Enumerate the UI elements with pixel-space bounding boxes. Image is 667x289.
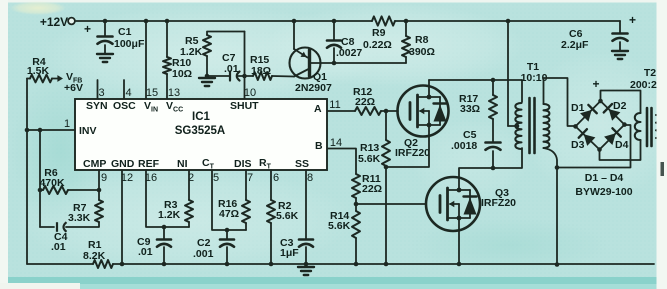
junction bridge bottom xyxy=(597,147,602,152)
svg-text:A: A xyxy=(314,103,322,115)
pin number 2 xyxy=(188,172,194,184)
label +12V xyxy=(40,15,68,29)
junction pin15-rail xyxy=(144,19,149,24)
svg-text:SG3525A: SG3525A xyxy=(175,125,226,137)
svg-text:10Ω: 10Ω xyxy=(172,68,192,80)
label C7 xyxy=(222,52,239,75)
pin number 11 xyxy=(329,99,340,111)
resistor R10 xyxy=(163,21,171,99)
svg-text:470K: 470K xyxy=(39,177,65,189)
capacitor C6 xyxy=(613,21,628,50)
label R9 xyxy=(363,27,392,51)
label R1 xyxy=(83,239,106,262)
label R15 xyxy=(250,54,271,77)
svg-text:5: 5 xyxy=(213,172,219,184)
resistor R16 xyxy=(242,170,250,230)
svg-text:5.6K: 5.6K xyxy=(328,220,351,232)
capacitor C1 xyxy=(98,21,113,53)
pin number 1 xyxy=(64,118,70,130)
ground (R5) xyxy=(199,78,215,86)
svg-text:8: 8 xyxy=(307,172,313,184)
resistor R4 xyxy=(27,75,63,83)
svg-text:BYW29-100: BYW29-100 xyxy=(575,186,632,198)
label CMP xyxy=(83,158,106,170)
junction R8-rail xyxy=(404,19,409,24)
junction C8-base xyxy=(332,61,337,66)
svg-text:14: 14 xyxy=(330,137,342,149)
svg-text:4: 4 xyxy=(125,87,131,99)
capacitor C2 xyxy=(220,230,234,264)
label RT xyxy=(259,157,272,171)
capacitor C7 xyxy=(207,72,253,81)
wire Q2 source xyxy=(386,137,429,168)
label A xyxy=(314,103,322,115)
pin number 16 xyxy=(145,172,157,184)
capacitor C3 xyxy=(299,170,313,264)
label R8 xyxy=(409,34,435,58)
junction bridge right xyxy=(622,122,627,127)
label GND xyxy=(111,158,135,170)
svg-text:IRFZ20: IRFZ20 xyxy=(395,147,430,159)
junction bridge top xyxy=(598,99,603,104)
label R12 xyxy=(353,86,375,108)
label R5 xyxy=(180,35,203,58)
svg-text:22Ω: 22Ω xyxy=(355,96,375,108)
label D1-D4 xyxy=(585,172,624,184)
svg-text:18Ω: 18Ω xyxy=(251,65,271,77)
IC U1 SG3525A body xyxy=(75,99,327,170)
label Q2 xyxy=(395,137,430,159)
svg-text:+: + xyxy=(592,77,599,91)
label OSC xyxy=(113,100,136,112)
junction pin12-rail xyxy=(120,262,125,267)
wire Q2 drain xyxy=(429,80,522,102)
junction R6-left xyxy=(38,188,43,193)
svg-text:1μF: 1μF xyxy=(280,247,299,259)
transistor Q2 xyxy=(398,86,449,137)
label D1 xyxy=(571,102,585,114)
junction tap-rail xyxy=(506,19,511,24)
svg-text:SHUT: SHUT xyxy=(230,100,259,112)
junction C2-top xyxy=(225,228,230,233)
svg-text:1: 1 xyxy=(64,118,70,130)
svg-text:15: 15 xyxy=(146,87,158,99)
svg-text:5.6K: 5.6K xyxy=(358,153,381,165)
pin number 13 xyxy=(168,87,180,99)
pin 4 stub xyxy=(123,80,125,99)
transistor Q3 xyxy=(426,177,480,231)
svg-text:R8: R8 xyxy=(415,34,429,46)
capacitor C4 xyxy=(40,222,67,232)
wire Q3 drain / T1 primary bottom xyxy=(459,148,522,178)
resistor R1 (in bottom line) xyxy=(93,260,113,268)
svg-text:IRFZ20: IRFZ20 xyxy=(481,197,516,209)
label C6 xyxy=(561,13,636,51)
svg-text:3.3K: 3.3K xyxy=(68,212,91,224)
svg-text:.01: .01 xyxy=(51,241,66,253)
label Q3 xyxy=(481,187,516,209)
label BYW29-100 xyxy=(575,186,632,198)
svg-text:B: B xyxy=(315,140,323,152)
resistor R9 xyxy=(372,16,395,25)
junction R5-gnd xyxy=(205,74,210,79)
capacitor C5 xyxy=(486,143,501,169)
resistor R14 xyxy=(352,211,360,264)
ground rail (bottom) xyxy=(27,263,654,265)
svg-text:CMP: CMP xyxy=(83,158,106,170)
resistor R3 xyxy=(185,170,193,227)
label R14 xyxy=(328,210,351,232)
label T1 xyxy=(521,61,548,84)
label R13 xyxy=(358,142,381,165)
pin number 15 xyxy=(146,87,158,99)
junction R6-CMP xyxy=(97,188,102,193)
junction Q3 source-rail xyxy=(457,262,462,267)
svg-text:11: 11 xyxy=(329,99,340,111)
node gate Q2 xyxy=(384,109,389,114)
svg-text:D1: D1 xyxy=(571,102,585,114)
svg-text:47Ω: 47Ω xyxy=(219,208,239,220)
junction R13-source xyxy=(384,165,389,170)
label R16 xyxy=(218,198,239,220)
label R7 xyxy=(68,202,91,224)
label CT xyxy=(202,157,215,171)
label C2 xyxy=(193,237,214,260)
label R3 xyxy=(158,199,181,221)
resistor R15 xyxy=(253,72,294,80)
label + (bridge output) xyxy=(592,77,599,91)
wire INV node xyxy=(27,79,75,131)
pin number 7 xyxy=(247,172,253,184)
diode D1 xyxy=(580,105,597,122)
svg-text:D3: D3 xyxy=(571,139,585,151)
wire REF pin16 xyxy=(146,170,189,227)
svg-text:D1 – D4: D1 – D4 xyxy=(585,172,624,184)
svg-text:1.2K: 1.2K xyxy=(158,209,181,221)
svg-text:200:2: 200:2 xyxy=(630,79,657,91)
power rail +12V (top) xyxy=(76,20,620,22)
junction C1-rail xyxy=(103,19,108,24)
wire INV to divider xyxy=(26,130,28,264)
label SS xyxy=(295,158,309,170)
wire T1 secondary top to bridge xyxy=(544,78,575,126)
junction R14-ground rail xyxy=(354,262,359,267)
junction R10-rail xyxy=(165,19,170,24)
junction C3-rail xyxy=(304,262,309,267)
transformer T1 core xyxy=(530,98,535,153)
terminal +12V xyxy=(68,18,75,25)
ground (C1) xyxy=(97,54,113,62)
label SYN xyxy=(86,100,108,112)
resistor R5 xyxy=(203,32,245,77)
capacitor C9 xyxy=(157,227,171,264)
resistor R6 xyxy=(40,186,99,194)
svg-text:R9: R9 xyxy=(372,27,386,39)
label R6 xyxy=(39,167,65,189)
junction C9-top xyxy=(162,225,167,230)
svg-text:+6V: +6V xyxy=(64,82,83,94)
svg-text:IC1: IC1 xyxy=(192,111,211,123)
wire ground to bridge right vertex xyxy=(557,125,631,168)
label D4 xyxy=(615,139,629,151)
label VCC xyxy=(166,100,183,114)
pin number 3 xyxy=(98,87,104,99)
junction Q1 emitter-rail xyxy=(292,19,297,24)
pin number 4 xyxy=(125,87,131,99)
transformer T2 secondary xyxy=(656,115,661,138)
diode D2 xyxy=(604,104,621,121)
svg-text:.001: .001 xyxy=(193,248,214,260)
wire bridge + to T2 primary xyxy=(601,91,641,114)
svg-text:10: 10 xyxy=(244,87,256,99)
transistor Q1 xyxy=(290,21,407,79)
pin 3 stub xyxy=(97,80,99,99)
svg-text:0.22Ω: 0.22Ω xyxy=(363,39,392,51)
label DIS xyxy=(234,158,252,170)
svg-text:9: 9 xyxy=(101,172,107,184)
junction bridge left xyxy=(573,124,578,129)
svg-text:3: 3 xyxy=(98,87,104,99)
label C8 xyxy=(336,36,362,59)
resistor R11 xyxy=(352,174,360,211)
label R2 xyxy=(276,200,299,222)
pin number 9 xyxy=(101,172,107,184)
label Q1 xyxy=(295,71,332,94)
svg-text:.01: .01 xyxy=(224,63,239,75)
svg-text:390Ω: 390Ω xyxy=(409,46,435,58)
wire CMP pin9 xyxy=(98,170,100,200)
ground (main rail) xyxy=(298,267,314,275)
page edge shading xyxy=(0,277,667,285)
svg-text:1.2K: 1.2K xyxy=(180,46,203,58)
junction C2-rail xyxy=(225,262,230,267)
svg-text:+: + xyxy=(629,13,636,27)
svg-text:D4: D4 xyxy=(615,139,629,151)
wire bridge - to T2 primary bottom xyxy=(600,140,641,160)
svg-text:5.6K: 5.6K xyxy=(276,210,299,222)
wire output A pin11 xyxy=(327,110,355,112)
resistor R8 xyxy=(402,21,410,63)
diode D3 xyxy=(579,129,596,146)
capacitor C8 xyxy=(327,21,341,63)
transformer T2 primary xyxy=(635,113,641,140)
resistor R17 xyxy=(489,80,497,142)
wire T1 secondary bottom to ground xyxy=(544,148,558,264)
svg-text:1.5K: 1.5K xyxy=(27,65,50,77)
junction T1 center tap xyxy=(515,124,520,129)
label NI xyxy=(177,158,188,170)
label R17 xyxy=(459,93,480,115)
svg-text:SYN: SYN xyxy=(86,100,108,112)
node gate Q3 xyxy=(354,202,359,207)
label D3 xyxy=(571,139,585,151)
svg-text:OSC: OSC xyxy=(113,100,136,112)
svg-text:6: 6 xyxy=(273,172,279,184)
wire GND pin12 xyxy=(121,170,123,264)
wire pin15 Vin xyxy=(145,21,147,99)
svg-text:7: 7 xyxy=(247,172,253,184)
diode D4 xyxy=(604,128,621,145)
svg-text:100μF: 100μF xyxy=(114,38,145,50)
pin number 5 xyxy=(213,172,219,184)
label B xyxy=(315,140,323,152)
svg-text:33Ω: 33Ω xyxy=(460,103,480,115)
junction SHUT xyxy=(242,74,247,79)
label R11 xyxy=(362,173,382,195)
wire Q3 source xyxy=(458,231,460,264)
pin number 8 xyxy=(307,172,313,184)
label R4 xyxy=(27,56,50,77)
svg-text:2N2907: 2N2907 xyxy=(295,82,332,94)
resistor R2 xyxy=(267,170,275,264)
svg-text:+: + xyxy=(84,22,91,36)
pin number 12 xyxy=(121,172,133,184)
wire SHUT node xyxy=(244,32,246,100)
svg-text:DIS: DIS xyxy=(234,158,252,170)
label VIN xyxy=(144,100,158,114)
resistor R7 xyxy=(66,200,103,227)
pin number 14 xyxy=(330,137,342,149)
svg-text:NI: NI xyxy=(177,158,188,170)
label SHUT xyxy=(230,100,259,112)
pin number 6 xyxy=(273,172,279,184)
junction T1 sec-ground rail xyxy=(555,262,560,267)
label C5 xyxy=(451,129,477,152)
label C4 xyxy=(51,231,68,253)
label INV xyxy=(79,125,97,137)
junction INV-left xyxy=(25,128,30,133)
svg-text:T2: T2 xyxy=(644,67,656,79)
transformer T1 secondary xyxy=(544,104,550,148)
svg-text:REF: REF xyxy=(138,158,160,170)
wire CT pin5 xyxy=(212,170,246,230)
transformer T1 primary xyxy=(515,103,521,149)
svg-text:SS: SS xyxy=(295,158,309,170)
svg-text:D2: D2 xyxy=(613,100,627,112)
wire gate Q3 xyxy=(356,203,426,205)
label VFB xyxy=(64,71,83,94)
resistor R13 xyxy=(382,111,390,264)
svg-text:22Ω: 22Ω xyxy=(362,183,382,195)
svg-text:13: 13 xyxy=(168,87,180,99)
svg-text:.01: .01 xyxy=(138,246,153,258)
label C9 xyxy=(137,236,153,258)
svg-text:INV: INV xyxy=(79,125,97,137)
transformer T2 core xyxy=(647,108,652,146)
label REF xyxy=(138,158,160,170)
svg-text:C1: C1 xyxy=(118,26,132,38)
svg-text:+12V: +12V xyxy=(40,15,68,29)
wire T1 center tap feed xyxy=(508,21,517,126)
wire compensation branch xyxy=(39,130,41,227)
junction R13-ground rail xyxy=(384,262,389,267)
node compensation branch xyxy=(38,128,43,133)
label C1 xyxy=(84,22,145,50)
svg-text:.0027: .0027 xyxy=(336,47,362,59)
label C3 xyxy=(280,237,299,259)
label IC1 xyxy=(175,111,226,137)
label D2 xyxy=(613,100,627,112)
pin number 10 xyxy=(244,87,256,99)
junction R17-drain xyxy=(491,78,496,83)
junction sec-bottom tee xyxy=(555,165,560,170)
junction C9-rail xyxy=(162,262,167,267)
junction R2-rail xyxy=(269,262,274,267)
label R10 xyxy=(172,57,192,80)
ground (C6) xyxy=(612,51,628,59)
junction C5-bottom xyxy=(491,166,496,171)
junction C8-rail xyxy=(332,19,337,24)
wire bridge edges xyxy=(576,101,625,150)
svg-text:.0018: .0018 xyxy=(451,140,477,152)
wire output B pin14 xyxy=(327,149,356,175)
svg-text:GND: GND xyxy=(111,158,135,170)
svg-text:2.2μF: 2.2μF xyxy=(561,39,589,51)
svg-text:8.2K: 8.2K xyxy=(83,250,106,262)
resistor R12 xyxy=(355,107,398,115)
label T2 xyxy=(630,67,657,91)
